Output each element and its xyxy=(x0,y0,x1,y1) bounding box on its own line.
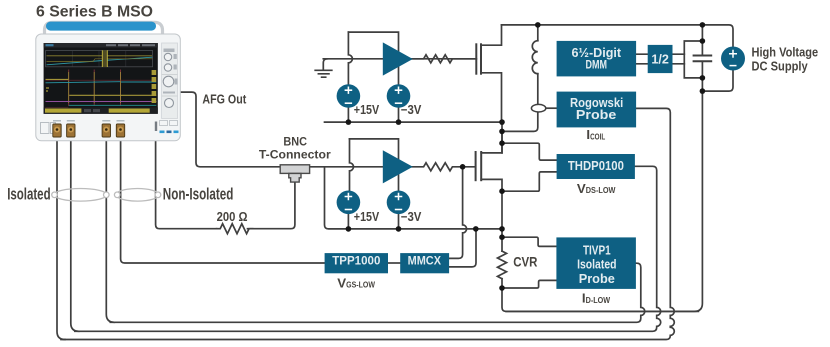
svg-text:Isolated: Isolated xyxy=(577,257,616,272)
svg-text:Probe: Probe xyxy=(579,271,615,286)
svg-text:MMCX: MMCX xyxy=(408,253,441,267)
svg-text:−3V: −3V xyxy=(401,210,422,224)
svg-text:6 Series B MSO: 6 Series B MSO xyxy=(36,4,153,21)
svg-text:TPP1000: TPP1000 xyxy=(332,253,381,267)
svg-text:BNC: BNC xyxy=(283,135,307,149)
svg-text:VGS-LOW: VGS-LOW xyxy=(337,275,375,290)
svg-text:−3V: −3V xyxy=(401,103,422,117)
svg-text:THDP0100: THDP0100 xyxy=(568,158,624,173)
svg-text:High Voltage: High Voltage xyxy=(752,46,819,60)
svg-text:1/2: 1/2 xyxy=(651,52,669,67)
svg-text:VDS-LOW: VDS-LOW xyxy=(577,181,616,196)
svg-text:AFG Out: AFG Out xyxy=(202,91,246,106)
svg-text:+15V: +15V xyxy=(354,210,380,224)
svg-text:CVR: CVR xyxy=(513,253,537,269)
svg-text:ID-LOW: ID-LOW xyxy=(582,291,611,306)
svg-text:DMM: DMM xyxy=(586,57,608,71)
svg-text:T-Connector: T-Connector xyxy=(259,148,331,162)
svg-text:ICOIL: ICOIL xyxy=(586,127,605,142)
svg-text:DC Supply: DC Supply xyxy=(752,60,808,74)
svg-text:Probe: Probe xyxy=(576,108,616,122)
svg-text:+15V: +15V xyxy=(354,103,380,117)
svg-text:TIVP1: TIVP1 xyxy=(583,242,611,257)
svg-text:200 Ω: 200 Ω xyxy=(217,210,248,224)
svg-text:Non-Isolated: Non-Isolated xyxy=(163,186,234,204)
svg-text:Isolated: Isolated xyxy=(7,186,50,204)
